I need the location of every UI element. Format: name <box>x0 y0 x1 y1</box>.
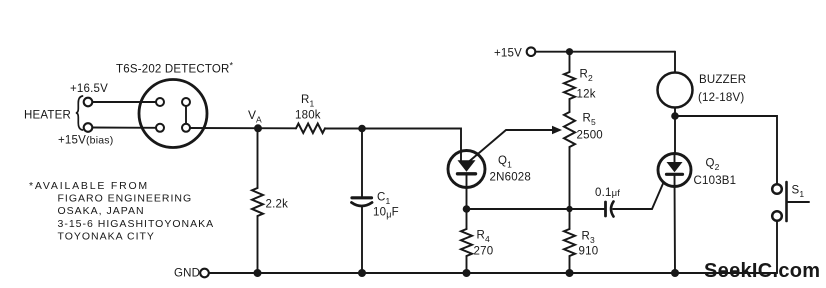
Q1 triangle <box>458 160 476 172</box>
svg-text:TOYONAKA CITY: TOYONAKA CITY <box>58 231 155 243</box>
svg-text:+15V(bias): +15V(bias) <box>58 135 113 147</box>
label R5 <box>583 113 597 128</box>
label Q1 <box>498 155 512 170</box>
label 2N6028 <box>490 172 531 184</box>
switch S1 button stem <box>787 201 810 203</box>
svg-text:+15V: +15V <box>494 48 522 60</box>
capacitor 0.1uf right plate <box>611 202 614 217</box>
detector T6S-202 body <box>139 80 207 148</box>
label 2.2k <box>266 199 289 211</box>
label +16.5V <box>70 83 108 95</box>
label (12-18V) <box>698 92 744 104</box>
resistor R1 <box>296 124 325 133</box>
label 2500 <box>577 130 603 142</box>
heater brace <box>76 96 83 130</box>
resistor R2 <box>564 72 575 99</box>
svg-text:HEATER: HEATER <box>24 110 71 122</box>
resistor R3 <box>564 229 575 256</box>
wire buzzer bottom <box>674 108 676 117</box>
+15V terminal <box>527 47 536 56</box>
wire buzzer top lead <box>674 52 676 73</box>
label GND <box>174 268 200 280</box>
label BUZZER <box>699 74 746 86</box>
wire R4 leads <box>466 209 468 229</box>
svg-text:R5: R5 <box>583 113 597 128</box>
Q2 triangle <box>667 162 683 172</box>
resistor 2.2k <box>252 188 263 216</box>
switch S1 bottom contact <box>772 211 782 221</box>
wire cap to Q2 gate <box>613 176 667 210</box>
thyristor Q2 body <box>658 154 691 187</box>
wire cathode row to cap <box>467 208 605 210</box>
junction dot rail Q2 <box>671 269 679 277</box>
svg-text:0.1μf: 0.1μf <box>595 187 620 199</box>
junction dot R2 top <box>566 48 573 55</box>
wire C1 top lead <box>361 129 363 197</box>
label R3 <box>582 231 596 246</box>
junction dot rail C1 <box>358 269 366 277</box>
wire between right pins <box>185 106 187 124</box>
heater terminal bottom <box>84 123 93 132</box>
svg-text:2.2k: 2.2k <box>266 199 289 211</box>
buzzer body <box>658 73 693 108</box>
svg-text:R2: R2 <box>580 69 594 84</box>
Q1 gate wire to R5 wiper <box>469 130 553 162</box>
junction dot buzzer bottom <box>671 112 679 120</box>
wire to Q2 anode <box>674 116 676 162</box>
label R2 <box>580 69 594 84</box>
capacitor C1 bottom plate <box>352 203 373 207</box>
wire +15V rail <box>536 51 676 53</box>
label R1 <box>301 94 315 109</box>
detector pin bottom-right <box>182 124 190 132</box>
wire buzzer junction to S1 <box>675 116 777 184</box>
svg-text:Q2: Q2 <box>706 158 720 173</box>
Q1 anode wire inside <box>460 151 462 162</box>
wire heater top <box>93 101 157 103</box>
label Q2 <box>706 158 720 173</box>
svg-text:C103B1: C103B1 <box>694 175 737 187</box>
junction dot rail R4 <box>463 269 471 277</box>
detector pin top-right <box>182 98 190 106</box>
svg-text:270: 270 <box>474 246 494 258</box>
wire Q2 cathode down <box>674 175 677 274</box>
Q2 cathode bar <box>667 173 683 176</box>
label 270 <box>474 246 494 258</box>
wire 2.2k bottom lead <box>257 216 259 273</box>
svg-text:+16.5V: +16.5V <box>70 83 108 95</box>
svg-text:OSAKA, JAPAN: OSAKA, JAPAN <box>58 205 145 217</box>
label HEATER <box>24 110 71 122</box>
wire detector output to node A <box>190 127 296 129</box>
svg-text:C1: C1 <box>377 192 391 207</box>
ground terminal <box>200 269 209 278</box>
wire R3 bottom lead <box>569 256 571 273</box>
resistor R4 <box>461 229 472 256</box>
label C1 <box>377 192 391 207</box>
switch S1 actuator bar <box>785 182 788 221</box>
label T6S-202 DETECTOR* <box>116 61 234 76</box>
junction dot rail R3 <box>566 269 574 277</box>
wire C1 bottom lead <box>361 207 363 274</box>
Q1 cathode bar <box>458 172 476 175</box>
svg-text:R3: R3 <box>582 231 596 246</box>
label 0.1uf <box>595 187 620 199</box>
wire 2.2k top lead <box>257 128 259 188</box>
svg-text:*AVAILABLE FROM: *AVAILABLE FROM <box>29 180 149 192</box>
footnote text <box>29 180 214 243</box>
Q2 anode wire inside <box>674 154 676 164</box>
label 12k <box>577 89 596 101</box>
label 180k <box>295 110 321 122</box>
svg-text:S1: S1 <box>792 185 805 200</box>
node A junction dot <box>254 124 262 132</box>
watermark SeekIC.com <box>704 260 820 282</box>
svg-text:FIGARO ENGINEERING: FIGARO ENGINEERING <box>58 193 193 205</box>
svg-text:910: 910 <box>579 246 599 258</box>
heater terminal top <box>84 98 93 107</box>
svg-text:T6S-202 DETECTOR*: T6S-202 DETECTOR* <box>116 61 234 76</box>
potentiometer R5 <box>564 112 575 147</box>
svg-text:180k: 180k <box>295 110 321 122</box>
label 910 <box>579 246 599 258</box>
wire bottom rail <box>209 272 777 274</box>
svg-text:R4: R4 <box>477 230 491 245</box>
wire Q1 cathode down <box>466 174 468 209</box>
svg-text:(12-18V): (12-18V) <box>698 92 744 104</box>
svg-text:2N6028: 2N6028 <box>490 172 531 184</box>
label Va <box>248 108 262 125</box>
label R4 <box>477 230 491 245</box>
R5 wiper arrowhead <box>552 126 562 134</box>
wire R1 to Q1 anode corner <box>325 129 461 162</box>
wire R2-R5 <box>569 99 571 112</box>
wire S1 bottom lead <box>776 221 778 273</box>
svg-text:10μF: 10μF <box>373 207 399 220</box>
capacitor 0.1uf left plate <box>604 202 607 216</box>
svg-text:12k: 12k <box>577 89 596 101</box>
label +15V <box>494 48 522 60</box>
svg-text:3-15-6 HIGASHITOYONAKA: 3-15-6 HIGASHITOYONAKA <box>58 218 215 230</box>
svg-text:Q1: Q1 <box>498 155 512 170</box>
transistor Q1 body <box>448 151 485 188</box>
wire heater bottom <box>93 127 157 129</box>
svg-text:SeekIC.com: SeekIC.com <box>704 260 820 282</box>
junction dot rail 2.2k <box>254 269 262 277</box>
junction dot Q1 cathode <box>463 205 471 213</box>
svg-text:2500: 2500 <box>577 130 603 142</box>
svg-text:BUZZER: BUZZER <box>699 74 746 86</box>
detector pin bottom-left <box>156 124 164 132</box>
svg-text:VA: VA <box>248 108 262 125</box>
switch S1 top contact <box>772 184 782 194</box>
detector pin top-left <box>156 98 164 106</box>
junction dot C1 top <box>358 125 366 133</box>
capacitor C1 top plate <box>352 196 372 199</box>
label +15V(bias) <box>58 135 113 147</box>
label C103B1 <box>694 175 737 187</box>
svg-text:R1: R1 <box>301 94 315 109</box>
junction dot R5/R3 row <box>566 206 572 212</box>
svg-text:GND: GND <box>174 268 200 280</box>
wire R5 bottom to R3 <box>569 147 571 229</box>
label S1 <box>792 185 805 200</box>
label 10uF <box>373 207 399 220</box>
wire R2 top lead <box>569 52 571 72</box>
